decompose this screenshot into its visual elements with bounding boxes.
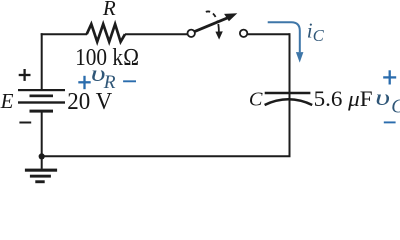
svg-text:C: C — [249, 89, 263, 111]
svg-text:100 kΩ: 100 kΩ — [75, 44, 139, 71]
svg-text:C: C — [313, 26, 325, 45]
svg-text:E: E — [0, 89, 14, 113]
svg-text:R: R — [102, 0, 116, 20]
svg-text:R: R — [103, 72, 116, 93]
svg-text:C: C — [391, 97, 400, 118]
svg-text:5.6 μF: 5.6 μF — [314, 86, 373, 111]
svg-text:υ: υ — [375, 85, 390, 110]
